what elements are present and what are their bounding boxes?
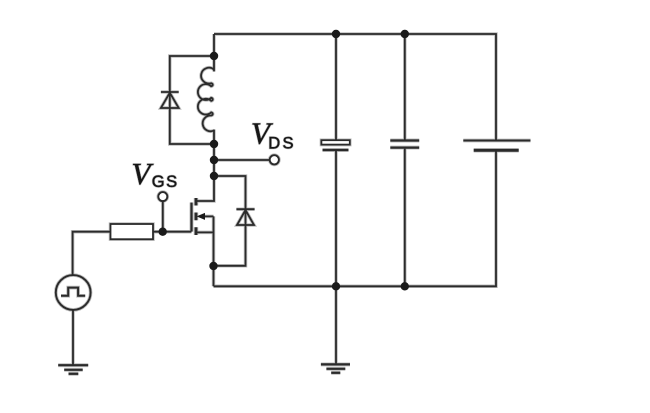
svg-text:V: V (132, 156, 154, 191)
svg-text:DS: DS (268, 134, 296, 152)
svg-text:GS: GS (152, 173, 179, 191)
